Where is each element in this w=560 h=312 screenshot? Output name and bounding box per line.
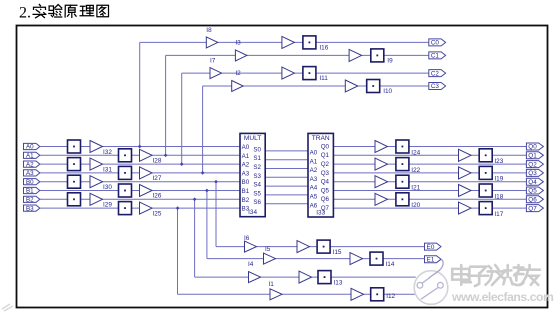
- svg-text:I1: I1: [269, 281, 275, 288]
- svg-text:I24: I24: [411, 149, 420, 156]
- svg-text:I27: I27: [153, 175, 162, 182]
- svg-text:I5: I5: [265, 246, 271, 253]
- svg-text:A1: A1: [310, 158, 318, 165]
- svg-text:C3: C3: [431, 83, 440, 90]
- svg-text:I28: I28: [153, 158, 162, 165]
- svg-text:TRAN: TRAN: [312, 135, 330, 142]
- svg-text:I13: I13: [334, 280, 343, 287]
- svg-text:S4: S4: [253, 182, 261, 189]
- svg-text:A1: A1: [242, 153, 250, 160]
- svg-text:I30: I30: [103, 184, 112, 191]
- svg-text:S1: S1: [253, 155, 261, 162]
- svg-text:S2: S2: [253, 164, 261, 171]
- svg-text:A1: A1: [26, 153, 34, 160]
- svg-text:B0: B0: [242, 179, 250, 186]
- svg-text:A0: A0: [310, 150, 318, 157]
- svg-text:B1: B1: [242, 188, 250, 195]
- svg-text:I21: I21: [411, 185, 420, 192]
- svg-text:I16: I16: [319, 44, 328, 51]
- svg-text:I8: I8: [206, 27, 212, 34]
- svg-text:S5: S5: [253, 190, 261, 197]
- svg-text:C0: C0: [431, 40, 440, 47]
- svg-text:A2: A2: [242, 162, 250, 169]
- svg-text:I11: I11: [319, 75, 328, 82]
- svg-text:Q3: Q3: [321, 170, 330, 177]
- svg-text:B3: B3: [242, 206, 250, 213]
- svg-text:I23: I23: [494, 158, 503, 165]
- svg-text:Q2: Q2: [528, 161, 537, 168]
- svg-text:Q6: Q6: [528, 197, 537, 204]
- svg-text:B0: B0: [26, 179, 34, 186]
- svg-text:A0: A0: [26, 144, 34, 151]
- svg-text:I15: I15: [333, 249, 342, 256]
- svg-text:A2: A2: [310, 167, 318, 174]
- svg-text:I32: I32: [103, 149, 112, 156]
- svg-text:S3: S3: [253, 173, 261, 180]
- svg-text:I9: I9: [387, 57, 393, 64]
- svg-text:A6: A6: [310, 202, 318, 209]
- svg-text:Q1: Q1: [528, 153, 537, 160]
- svg-text:A2: A2: [26, 161, 34, 168]
- svg-text:www.elecfans.com: www.elecfans.com: [451, 290, 554, 304]
- svg-text:MULT: MULT: [244, 135, 261, 142]
- svg-text:I12: I12: [386, 293, 395, 300]
- svg-text:Q7: Q7: [321, 205, 330, 212]
- svg-text:E0: E0: [427, 244, 435, 251]
- svg-text:A5: A5: [310, 194, 318, 201]
- svg-text:B2: B2: [242, 197, 250, 204]
- svg-text:Q1: Q1: [321, 152, 330, 159]
- svg-text:I17: I17: [494, 211, 503, 218]
- svg-text:I3: I3: [235, 40, 241, 47]
- svg-text:Q4: Q4: [321, 179, 330, 186]
- svg-text:2.: 2.: [19, 5, 31, 22]
- svg-text:I6: I6: [244, 235, 250, 242]
- svg-text:I20: I20: [411, 202, 420, 209]
- svg-text:I2: I2: [235, 70, 241, 77]
- svg-text:I34: I34: [248, 209, 257, 216]
- svg-text:S6: S6: [253, 199, 261, 206]
- svg-text:Q7: Q7: [528, 205, 537, 212]
- svg-text:Q5: Q5: [321, 187, 330, 194]
- svg-text:Q5: Q5: [528, 188, 537, 195]
- svg-text:I31: I31: [103, 167, 112, 174]
- svg-text:B3: B3: [26, 205, 34, 212]
- svg-text:C1: C1: [431, 53, 440, 60]
- svg-text:I25: I25: [153, 210, 162, 217]
- svg-text:Q3: Q3: [528, 170, 537, 177]
- svg-text:A4: A4: [310, 185, 318, 192]
- svg-text:I18: I18: [494, 193, 503, 200]
- svg-text:S0: S0: [253, 146, 261, 153]
- svg-text:I29: I29: [103, 202, 112, 209]
- svg-text:A3: A3: [310, 176, 318, 183]
- svg-text:A3: A3: [26, 170, 34, 177]
- svg-text:Q0: Q0: [321, 143, 330, 150]
- svg-text:I19: I19: [494, 176, 503, 183]
- svg-text:I14: I14: [386, 261, 395, 268]
- svg-text:A0: A0: [242, 144, 250, 151]
- svg-text:Q6: Q6: [321, 196, 330, 203]
- svg-text:I7: I7: [210, 57, 216, 64]
- svg-text:Q2: Q2: [321, 161, 330, 168]
- svg-text:E1: E1: [427, 256, 435, 263]
- svg-text:A3: A3: [242, 170, 250, 177]
- svg-text:B1: B1: [26, 188, 34, 195]
- svg-text:I22: I22: [411, 167, 420, 174]
- svg-text:I26: I26: [153, 193, 162, 200]
- svg-text:B2: B2: [26, 197, 34, 204]
- svg-text:I10: I10: [383, 88, 392, 95]
- svg-text:Q0: Q0: [528, 144, 537, 151]
- svg-text:Q4: Q4: [528, 179, 537, 186]
- svg-text:C2: C2: [431, 70, 440, 77]
- svg-text:I4: I4: [248, 261, 254, 268]
